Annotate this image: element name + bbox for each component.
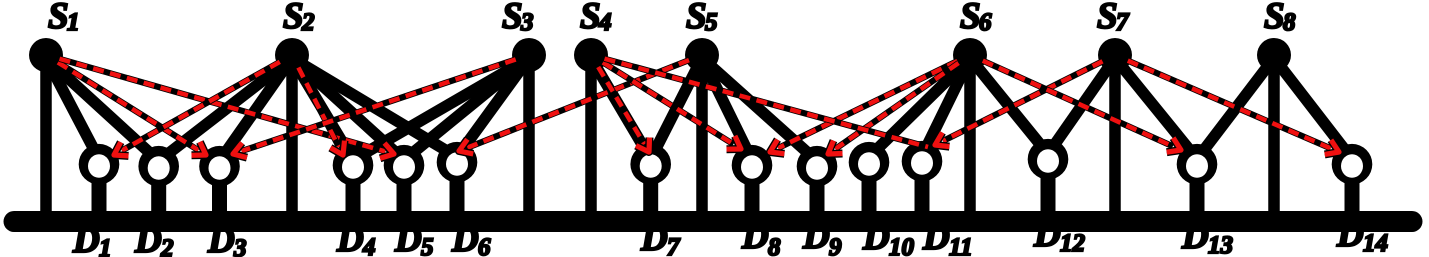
- red reroute arrow S4: [603, 62, 741, 149]
- svg-text:S: S: [686, 0, 707, 37]
- wire: stem of destination D4: [346, 165, 361, 216]
- node S5: [685, 38, 719, 72]
- svg-text:D: D: [207, 220, 235, 257]
- label D12: [1033, 214, 1085, 257]
- label S5: [686, 0, 718, 37]
- node D11: [902, 141, 943, 182]
- label D13: [1181, 216, 1233, 257]
- label D10: [862, 217, 915, 257]
- node S2: [275, 38, 309, 72]
- svg-text:D: D: [741, 216, 769, 257]
- node D4: [333, 145, 374, 186]
- wire: stem of destination D14: [1345, 164, 1360, 216]
- node D13: [1177, 144, 1218, 185]
- label D9: [802, 216, 842, 257]
- wire: stem of source S2: [286, 55, 298, 216]
- node D10: [849, 142, 890, 183]
- wire: stem of source S7: [1109, 55, 1121, 216]
- wire: link S7 to D12: [1048, 58, 1115, 154]
- node D2: [138, 146, 179, 187]
- wire: link S3 to D5: [404, 58, 529, 160]
- node D8: [732, 145, 773, 186]
- node D6: [437, 142, 478, 183]
- wire: stem of source S5: [696, 55, 708, 216]
- label S2: [283, 0, 315, 37]
- svg-text:1: 1: [99, 235, 112, 257]
- red reroute arrow S2: [298, 68, 344, 156]
- wire: link S6 to D11: [922, 58, 970, 156]
- svg-text:2: 2: [301, 9, 315, 36]
- svg-text:D: D: [451, 219, 479, 257]
- label D1: [72, 220, 112, 257]
- wire: link S2 to D4: [292, 58, 353, 160]
- wire: stem of destination D5: [397, 165, 412, 216]
- wire: link S6 to D12: [970, 58, 1048, 154]
- svg-text:D: D: [640, 218, 668, 257]
- node S7: [1098, 38, 1132, 72]
- node D3: [199, 146, 240, 187]
- label D7: [640, 218, 681, 257]
- wire: stem of destination D13: [1190, 164, 1205, 216]
- svg-text:3: 3: [520, 9, 534, 36]
- svg-text:S: S: [48, 0, 69, 37]
- svg-text:11: 11: [949, 234, 973, 257]
- wire: link S2 to D3: [220, 58, 293, 161]
- svg-text:S: S: [580, 0, 601, 37]
- svg-text:5: 5: [705, 9, 718, 36]
- red reroute arrow S4: [605, 59, 929, 147]
- node D1: [79, 144, 120, 185]
- svg-text:12: 12: [1060, 230, 1085, 257]
- svg-text:3: 3: [233, 235, 247, 257]
- wire: stem of destination D8: [745, 165, 760, 216]
- label S4: [580, 0, 612, 37]
- wire: stem of destination D11: [915, 161, 930, 216]
- wire: stem of destination D10: [862, 162, 877, 216]
- label S8: [1264, 0, 1296, 37]
- svg-text:13: 13: [1208, 232, 1233, 257]
- red reroute arrow S6: [983, 61, 1181, 153]
- wire: stem of destination D9: [810, 166, 825, 216]
- wire: link S1 to D2: [46, 58, 159, 161]
- label S7: [1097, 0, 1130, 37]
- node S4: [574, 38, 608, 72]
- wire: stem of source S1: [40, 55, 52, 216]
- svg-text:2: 2: [160, 235, 174, 257]
- red reroute arrow S6: [828, 63, 959, 154]
- node S8: [1257, 38, 1291, 72]
- label D6: [451, 219, 491, 257]
- wire: stem of destination D12: [1041, 159, 1056, 216]
- label D2: [134, 220, 174, 257]
- wire: link S1 to D1: [46, 58, 99, 159]
- node D9: [797, 146, 838, 187]
- wire: stem of destination D3: [212, 166, 227, 216]
- wire: link S3 to D6: [457, 58, 529, 157]
- svg-text:5: 5: [421, 234, 434, 257]
- svg-text:S: S: [502, 0, 523, 37]
- svg-text:10: 10: [889, 234, 915, 257]
- label S6: [960, 0, 992, 37]
- node S3: [512, 38, 546, 72]
- red reroute arrow S1: [60, 59, 395, 159]
- label S3: [502, 0, 534, 37]
- red reroute arrow S7: [1128, 61, 1339, 155]
- svg-text:4: 4: [598, 9, 612, 36]
- svg-text:D: D: [802, 216, 830, 257]
- svg-text:D: D: [1336, 214, 1364, 255]
- wire: link S2 to D6: [292, 58, 457, 157]
- wire: link S7 to D13: [1115, 58, 1197, 159]
- wire: stem of source S8: [1268, 55, 1280, 216]
- svg-text:6: 6: [979, 9, 992, 36]
- svg-text:D: D: [336, 219, 364, 257]
- svg-text:D: D: [862, 217, 890, 257]
- wire: stem of destination D1: [92, 164, 107, 216]
- svg-text:7: 7: [667, 234, 681, 257]
- wire: stem of source S6: [964, 55, 976, 216]
- node D7: [630, 144, 671, 185]
- red reroute arrow S5: [459, 60, 689, 154]
- node D14: [1332, 144, 1373, 185]
- label D14: [1336, 214, 1388, 257]
- red reroute arrow S3: [233, 59, 516, 157]
- red reroute arrow S7: [935, 61, 1103, 146]
- node S6: [953, 38, 987, 72]
- wire: link S8 to D13: [1197, 58, 1274, 159]
- label D11: [922, 217, 973, 257]
- wire: link S2 to D5: [292, 58, 404, 160]
- svg-text:D: D: [1033, 214, 1061, 255]
- svg-text:S: S: [1264, 0, 1285, 37]
- svg-text:S: S: [283, 0, 304, 37]
- svg-text:6: 6: [478, 234, 491, 257]
- red reroute arrow S1: [58, 62, 206, 155]
- label D4: [336, 219, 376, 257]
- red reroute arrow S4: [598, 67, 649, 152]
- wire: link S8 to D14: [1274, 58, 1352, 159]
- wire: stem of source S4: [585, 55, 597, 216]
- svg-text:14: 14: [1363, 230, 1388, 257]
- svg-text:S: S: [960, 0, 981, 37]
- red reroute arrow S2: [114, 62, 280, 156]
- wire: stem of source S3: [523, 55, 535, 216]
- wire: stem of destination D7: [643, 164, 658, 216]
- svg-text:D: D: [922, 217, 950, 257]
- label D3: [207, 220, 247, 257]
- wire: link S5 to D7: [651, 58, 702, 159]
- wire: link S6 to D10: [869, 58, 970, 157]
- red reroute arrow S6: [770, 61, 957, 154]
- svg-text:7: 7: [1116, 9, 1130, 36]
- svg-text:8: 8: [1283, 9, 1296, 36]
- label S1: [48, 0, 80, 37]
- svg-text:4: 4: [362, 234, 376, 257]
- wire: link S5 to D9: [702, 58, 817, 161]
- label D8: [741, 216, 781, 257]
- svg-text:1: 1: [67, 9, 80, 36]
- label D5: [394, 219, 434, 257]
- wire: link S4 to D7: [591, 58, 651, 159]
- svg-text:D: D: [72, 220, 100, 257]
- svg-text:D: D: [394, 219, 422, 257]
- wire: stem of destination D2: [151, 166, 166, 216]
- node S1: [29, 38, 63, 72]
- wire: link S5 to D8: [702, 58, 752, 160]
- wire: bottom horizontal bus bar: [14, 211, 1412, 232]
- wire: link S2 to D2: [159, 58, 292, 161]
- wire: stem of destination D6: [450, 162, 465, 216]
- node D5: [384, 145, 425, 186]
- svg-text:9: 9: [829, 234, 842, 257]
- svg-text:S: S: [1097, 0, 1118, 37]
- svg-text:D: D: [134, 220, 162, 257]
- wire: link S3 to D4: [353, 58, 529, 160]
- node D12: [1028, 139, 1069, 180]
- svg-text:D: D: [1181, 216, 1209, 257]
- svg-text:8: 8: [768, 234, 781, 257]
